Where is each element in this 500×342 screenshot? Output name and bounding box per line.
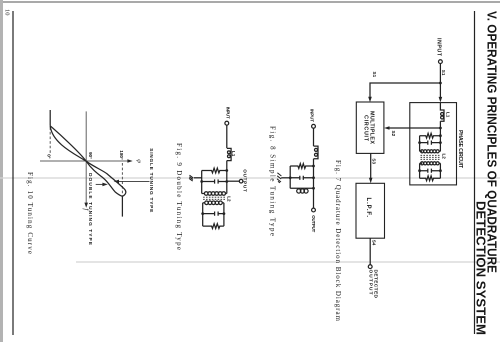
bottom rule xyxy=(12,11,14,335)
junction R1 xyxy=(225,169,228,172)
capacitor C2 xyxy=(203,212,224,216)
svg-text:Fig. 9 Double Tuning Type: Fig. 9 Double Tuning Type xyxy=(175,143,183,250)
phase circuit box xyxy=(410,103,457,185)
svg-text:L2: L2 xyxy=(441,154,446,160)
input terminal xyxy=(439,60,443,64)
svg-text:L.P.F.: L.P.F. xyxy=(365,198,371,218)
f axis xyxy=(85,111,87,204)
capacitor C2 xyxy=(420,169,441,173)
phi axis xyxy=(40,160,130,162)
svg-text:OUTPUT: OUTPUT xyxy=(243,169,248,192)
svg-text:0°: 0° xyxy=(47,154,52,159)
coil L1 xyxy=(227,148,231,160)
svg-text:INPUT: INPUT xyxy=(226,107,231,119)
capacitor C xyxy=(290,176,313,180)
ground hatching xyxy=(277,173,281,183)
svg-text:SINGLE TUNING TYPE: SINGLE TUNING TYPE xyxy=(148,148,154,213)
arrow S2 into multiplex xyxy=(384,126,389,130)
svg-text:Fig. 8 Simple Tuning Type: Fig. 8 Simple Tuning Type xyxy=(269,126,277,236)
wire coil to output xyxy=(313,159,315,208)
junction L top xyxy=(312,187,315,190)
svg-text:INPUT: INPUT xyxy=(436,38,442,57)
svg-text:S1: S1 xyxy=(441,70,446,76)
junction C2 bottom xyxy=(201,212,204,215)
junction output tap xyxy=(225,180,228,183)
resistor R2 xyxy=(203,224,224,229)
junction C1 bottom xyxy=(418,141,421,144)
fold line 2 xyxy=(76,261,500,263)
series coil xyxy=(314,146,319,159)
wire input to phase box xyxy=(439,64,441,99)
svg-text:INPUT: INPUT xyxy=(310,109,315,122)
left flat tail xyxy=(49,110,51,126)
wire S1 down xyxy=(370,83,440,99)
svg-text:90°: 90° xyxy=(88,152,93,159)
secondary bottom rail xyxy=(419,163,421,178)
secondary bottom rail xyxy=(202,203,204,226)
transformer core xyxy=(420,154,440,156)
svg-text:10: 10 xyxy=(4,9,11,16)
resistor R xyxy=(290,164,313,169)
page left edge shadow xyxy=(0,1,500,3)
ground hatching xyxy=(189,175,193,181)
main wire xyxy=(313,128,315,146)
svg-text:MULTIPLEX: MULTIPLEX xyxy=(368,111,374,144)
single tuning curve xyxy=(50,126,126,197)
junction ground xyxy=(289,176,292,179)
svg-text:DETECTED: DETECTED xyxy=(373,270,379,299)
bottom rail tank1 xyxy=(201,171,203,194)
svg-text:DOUBLE TUNING TYPE: DOUBLE TUNING TYPE xyxy=(87,173,93,246)
heading rule xyxy=(474,11,476,334)
ground stub xyxy=(281,177,290,179)
phi axis arrow xyxy=(127,159,132,163)
junction R1 top xyxy=(439,134,442,137)
svg-text:Fig. 7 Quadrature Detection Bl: Fig. 7 Quadrature Detection Block Diagra… xyxy=(334,160,342,322)
transformer primary winding xyxy=(226,193,227,195)
dashed 180 level xyxy=(121,163,123,196)
svg-text:S4: S4 xyxy=(372,240,377,246)
svg-text:OUTPUT: OUTPUT xyxy=(311,215,316,232)
svg-text:CIRCUIT: CIRCUIT xyxy=(362,115,368,142)
junction C2 bottom xyxy=(418,169,421,172)
wire S3 xyxy=(370,153,372,179)
arrow S3 into LPF xyxy=(369,178,373,183)
output terminal xyxy=(312,208,316,212)
fold line 1 xyxy=(0,177,500,179)
main wire xyxy=(226,125,228,148)
svg-text:L1: L1 xyxy=(231,151,236,157)
wire S2 xyxy=(388,127,440,129)
transformer secondary winding xyxy=(439,162,441,164)
top rail primary xyxy=(439,121,441,151)
f axis arrow xyxy=(84,203,88,208)
output branch xyxy=(227,180,240,182)
junction C2 top xyxy=(223,212,226,215)
svg-text:180°: 180° xyxy=(119,150,124,160)
shunt coil L xyxy=(290,187,313,189)
bottom rail xyxy=(289,166,291,188)
transformer core xyxy=(203,196,226,198)
bottom rail primary xyxy=(419,136,421,152)
secondary top rail xyxy=(439,163,441,178)
resistor R1 xyxy=(420,133,441,138)
input terminal xyxy=(312,124,316,128)
input terminal xyxy=(225,121,229,125)
coil L1 xyxy=(440,103,444,122)
resistor R1 xyxy=(202,168,227,173)
page bottom edge shadow xyxy=(0,0,3,342)
wire S4 xyxy=(369,238,371,264)
arrow into phase box xyxy=(439,97,443,103)
junction on input wire xyxy=(439,82,442,85)
output terminal xyxy=(239,179,243,183)
svg-text:Fig. 10 Tuning Curve: Fig. 10 Tuning Curve xyxy=(26,172,34,254)
svg-text:DETECTION SYSTEM: DETECTION SYSTEM xyxy=(473,201,488,335)
arrow into multiplex xyxy=(368,97,372,103)
svg-text:L1: L1 xyxy=(446,112,451,118)
junction R top xyxy=(312,165,315,168)
single pointer arrow xyxy=(118,180,150,182)
svg-text:L2: L2 xyxy=(227,196,232,202)
right flat tail xyxy=(121,196,123,216)
double pointer arrow xyxy=(96,183,104,185)
wire to primary xyxy=(226,161,228,194)
svg-text:S1: S1 xyxy=(372,72,377,78)
svg-text:PHASE CIRCUIT: PHASE CIRCUIT xyxy=(457,130,463,169)
junction C1 top xyxy=(439,141,442,144)
double tuning curve xyxy=(50,126,122,197)
capacitor C1 xyxy=(202,179,227,183)
junction S2 xyxy=(439,127,442,130)
LPF box xyxy=(356,183,385,238)
secondary top rail xyxy=(223,203,225,226)
svg-text:S2: S2 xyxy=(391,131,396,137)
svg-text:S3: S3 xyxy=(371,158,376,164)
resistor R2 xyxy=(420,176,441,181)
junction C1 bottom xyxy=(200,180,203,183)
junction C2 top xyxy=(439,169,442,172)
transformer secondary winding xyxy=(222,202,224,204)
output terminal xyxy=(368,265,372,269)
ground stub xyxy=(194,177,202,179)
transformer primary winding xyxy=(439,150,441,152)
junction C top xyxy=(312,176,315,179)
capacitor C1 xyxy=(420,141,441,145)
dashed 0 level xyxy=(49,127,51,153)
multiplex circuit box xyxy=(356,102,384,153)
svg-text:φ: φ xyxy=(135,159,142,163)
